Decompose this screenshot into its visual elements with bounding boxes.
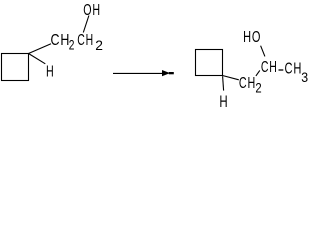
bond ring to CH2 chain bbox=[29, 44, 52, 54]
reaction arrow tip stub bbox=[169, 72, 174, 74]
cyclobutane ring (left molecule) bbox=[2, 54, 29, 81]
bond O to CH (right) bbox=[261, 46, 265, 57]
svg-text:CH: CH bbox=[285, 60, 303, 77]
bond ring to H (right) bbox=[223, 76, 224, 90]
svg-text:H: H bbox=[219, 93, 228, 108]
svg-text:CH: CH bbox=[51, 32, 71, 50]
svg-text:CH: CH bbox=[261, 58, 278, 76]
bond CH2 to OH bbox=[83, 16, 89, 33]
svg-text:2: 2 bbox=[69, 37, 76, 53]
svg-text:3: 3 bbox=[301, 69, 309, 85]
bond CH to CH3 dash bbox=[279, 69, 284, 71]
svg-text:2: 2 bbox=[95, 37, 104, 53]
bond ring to CH2 (right) bbox=[223, 76, 239, 80]
svg-text:OH: OH bbox=[83, 1, 101, 19]
bond CH2 to CH (right) bbox=[256, 70, 260, 76]
svg-text:HO: HO bbox=[243, 28, 261, 45]
bond ring to H bbox=[29, 54, 46, 64]
svg-text:CH: CH bbox=[239, 74, 256, 92]
svg-text:CH: CH bbox=[77, 31, 94, 49]
reaction arrow shaft bbox=[113, 72, 164, 74]
svg-text:2: 2 bbox=[255, 79, 262, 95]
svg-text:H: H bbox=[46, 63, 55, 81]
reaction arrow head bbox=[162, 70, 170, 76]
cyclobutane ring (right molecule) bbox=[196, 50, 223, 76]
